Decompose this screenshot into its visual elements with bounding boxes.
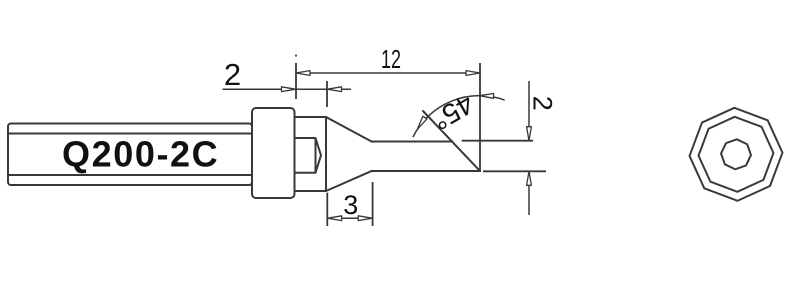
svg-text:3: 3 — [343, 190, 358, 220]
svg-text:2: 2 — [527, 96, 557, 111]
svg-text:Q200-2C: Q200-2C — [62, 134, 219, 175]
svg-text:2: 2 — [224, 57, 241, 92]
svg-text:12: 12 — [381, 44, 401, 74]
